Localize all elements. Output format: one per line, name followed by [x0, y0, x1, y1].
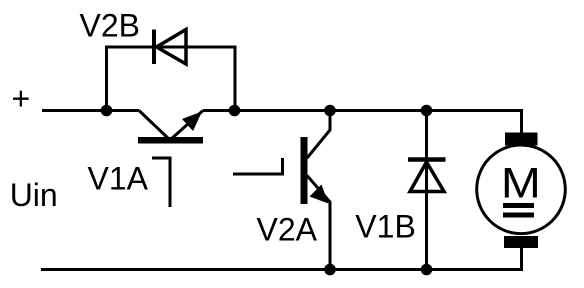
wire bottom rail [41, 247, 522, 270]
wire V2B bypass loop [107, 47, 236, 111]
svg-text:V1A: V1A [88, 160, 149, 196]
junction right of V1A [229, 105, 241, 117]
label V1B [355, 209, 415, 245]
wire V1B branch [425, 111, 428, 270]
wire top rail left segment [42, 109, 139, 112]
svg-text:M: M [501, 160, 541, 208]
diode V2B [154, 30, 186, 65]
svg-text:V2B: V2B [80, 8, 140, 44]
junction V1B top on rail [421, 105, 433, 117]
junction left of V1A [101, 105, 113, 117]
svg-text:Uin: Uin [10, 177, 58, 213]
motor M (DC motor) [477, 133, 566, 249]
junction V2A emitter on bottom rail [324, 264, 336, 276]
transistor V2A (IGBT, vertical) [233, 111, 330, 270]
svg-text:V1B: V1B [355, 209, 415, 245]
svg-text:V2A: V2A [257, 211, 318, 247]
transistor V1A (IGBT, horizontal) [138, 111, 203, 208]
label V2B [80, 8, 140, 44]
node + (positive input terminal) [12, 81, 31, 117]
label V2A [257, 211, 318, 247]
wire top rail right segment [203, 111, 522, 134]
label Uin [10, 177, 58, 213]
svg-text:+: + [12, 81, 31, 117]
diode V1B (freewheeling) [408, 160, 446, 192]
junction V2A collector on top rail [324, 105, 336, 117]
label V1A [88, 160, 149, 196]
junction V1B bottom on rail [421, 264, 433, 276]
